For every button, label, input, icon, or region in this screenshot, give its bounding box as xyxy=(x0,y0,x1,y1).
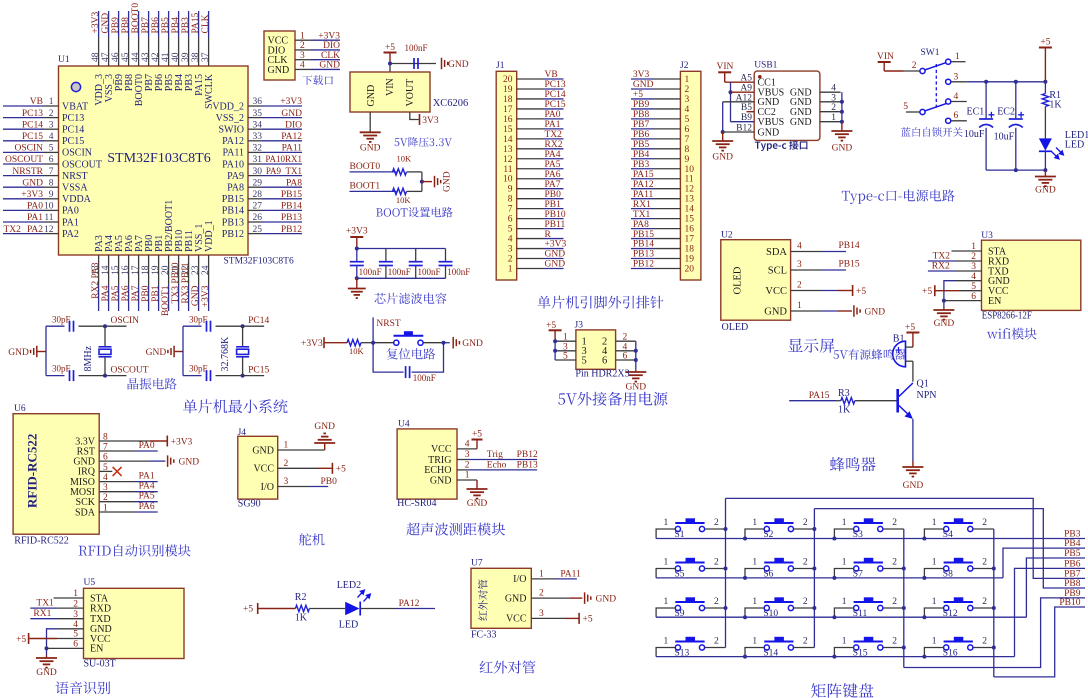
svg-text:BOOT0: BOOT0 xyxy=(350,162,381,172)
wire S5 pin1 elbow xyxy=(656,569,675,578)
svg-text:2: 2 xyxy=(300,41,305,51)
svg-text:1: 1 xyxy=(752,637,757,647)
svg-text:+5: +5 xyxy=(243,605,253,615)
wire U1 left pin 2 xyxy=(3,117,44,119)
svg-text:PA6: PA6 xyxy=(121,285,131,301)
svg-text:+5: +5 xyxy=(336,465,346,475)
svg-text:44: 44 xyxy=(131,52,141,62)
svg-text:2: 2 xyxy=(49,109,54,119)
svg-text:PB15: PB15 xyxy=(222,194,244,205)
svg-text:PB14: PB14 xyxy=(839,241,860,251)
wire row4 bus xyxy=(656,656,1014,658)
svg-text:OSCIN: OSCIN xyxy=(14,144,43,154)
wire J3 right vertical xyxy=(635,341,637,369)
svg-text:+3V3: +3V3 xyxy=(91,12,101,34)
svg-text:SDA: SDA xyxy=(766,247,787,258)
svg-text:RX3 PB11: RX3 PB11 xyxy=(181,262,191,303)
caption wifi模块 xyxy=(987,328,1037,340)
caption 单片机引脚外引排针 xyxy=(538,296,664,309)
svg-text:10K: 10K xyxy=(349,346,365,356)
wire U5 EN xyxy=(47,647,84,649)
svg-text:PA0: PA0 xyxy=(545,110,561,120)
svg-text:PB3: PB3 xyxy=(633,160,650,170)
wire J1 pin 20 xyxy=(517,78,543,80)
svg-text:GND: GND xyxy=(36,668,57,678)
wire U1 right pin 32 xyxy=(248,151,262,153)
svg-text:30pF: 30pF xyxy=(52,364,71,374)
junction dot col3 row2 xyxy=(902,567,906,571)
wire A12 gnd xyxy=(723,101,755,103)
wire J3 left pin 5 xyxy=(555,359,576,361)
junction dot col2 row1 xyxy=(812,527,816,531)
svg-text:PA1: PA1 xyxy=(27,213,43,223)
wire J4 VCC xyxy=(278,467,317,469)
svg-text:GND: GND xyxy=(633,80,654,90)
svg-text:PA6: PA6 xyxy=(139,502,155,512)
wire column2 top to PB8 xyxy=(814,509,1085,588)
svg-text:VCC: VCC xyxy=(506,614,527,625)
wire ladder left vertical 8MHz xyxy=(45,326,47,375)
svg-text:PC13: PC13 xyxy=(62,113,84,124)
svg-text:PB13: PB13 xyxy=(222,217,244,228)
svg-text:12: 12 xyxy=(503,155,513,165)
svg-text:2: 2 xyxy=(803,637,808,647)
wire U6 SDA xyxy=(99,511,135,513)
pushbutton S13 xyxy=(675,642,704,651)
wire J2 pin 3 xyxy=(631,98,654,100)
wire buzzer gnd stem xyxy=(912,461,914,466)
svg-text:TRIG: TRIG xyxy=(428,455,451,466)
svg-text:2: 2 xyxy=(714,637,719,647)
svg-text:PA4: PA4 xyxy=(545,150,561,160)
wire J2 pin 2 xyxy=(631,88,654,90)
junction dot bus row3 col4 xyxy=(922,615,926,619)
svg-text:47: 47 xyxy=(101,52,111,62)
wire J3 right pin 4 xyxy=(616,350,636,352)
junction dot usb right 1 xyxy=(840,120,844,124)
caption 复位电路 xyxy=(387,348,436,359)
wire S11 pin1 elbow xyxy=(834,608,853,617)
svg-text:PB3: PB3 xyxy=(181,17,191,34)
svg-text:18: 18 xyxy=(141,265,151,275)
junction dot top 32.768K xyxy=(241,324,245,328)
svg-text:+3V3: +3V3 xyxy=(171,437,193,447)
wire U5 pin1 xyxy=(54,597,84,599)
wire SW1 pin4 stub xyxy=(951,101,967,103)
svg-text:1: 1 xyxy=(842,518,847,528)
svg-text:PB6: PB6 xyxy=(1064,559,1081,569)
wire J2 pin 5 xyxy=(631,118,654,120)
svg-text:PB4: PB4 xyxy=(171,17,181,34)
junction dot bus row4 col4 xyxy=(922,655,926,659)
svg-text:39: 39 xyxy=(181,52,191,62)
svg-text:LED: LED xyxy=(1065,140,1084,151)
caption 蓝白自锁开关 xyxy=(901,127,963,137)
svg-text:U2: U2 xyxy=(721,231,733,241)
svg-text:8: 8 xyxy=(508,195,513,205)
pushbutton S8 xyxy=(944,563,973,572)
svg-text:PB1: PB1 xyxy=(545,200,562,210)
svg-text:PB15: PB15 xyxy=(633,230,654,240)
svg-text:VDDA: VDDA xyxy=(62,194,92,205)
wire U1 right pin 30 xyxy=(248,175,262,177)
svg-text:VSS_2: VSS_2 xyxy=(216,113,244,124)
wire S6 pin2 stub xyxy=(794,568,815,570)
wire USB1 right pin 1 xyxy=(820,121,841,123)
junction dot J3 pin6 xyxy=(634,358,638,362)
wire S7 pin1 elbow xyxy=(834,569,853,578)
svg-text:24: 24 xyxy=(201,265,211,275)
capacitor 30pF bottom 32.768K xyxy=(207,370,211,381)
svg-text:2: 2 xyxy=(714,558,719,568)
svg-text:3V3: 3V3 xyxy=(422,116,439,126)
svg-text:100nF: 100nF xyxy=(447,267,470,277)
capacitor C2 100nF xyxy=(385,249,387,262)
wire usb right gnd vertical xyxy=(841,92,843,122)
svg-text:VIN: VIN xyxy=(877,52,894,62)
svg-text:+3V3: +3V3 xyxy=(318,31,340,41)
wire row3 riser to PB5 xyxy=(1026,558,1085,617)
svg-text:10K: 10K xyxy=(397,154,413,164)
ground bar U7 xyxy=(585,592,591,604)
svg-text:PB13: PB13 xyxy=(633,250,654,260)
svg-text:OSCOUT: OSCOUT xyxy=(5,155,43,165)
svg-text:PA12: PA12 xyxy=(633,180,654,190)
svg-text:33: 33 xyxy=(253,132,263,142)
svg-text:2: 2 xyxy=(803,518,808,528)
svg-text:VOUT: VOUT xyxy=(405,79,416,107)
svg-text:10: 10 xyxy=(44,202,54,212)
svg-text:PB7: PB7 xyxy=(633,120,650,130)
svg-text:1: 1 xyxy=(49,97,54,107)
svg-text:2: 2 xyxy=(803,597,808,607)
svg-text:U3: U3 xyxy=(981,231,993,241)
wire U1 bottom pin 21 xyxy=(178,255,180,285)
svg-text:PB12: PB12 xyxy=(222,229,244,240)
svg-text:NRST: NRST xyxy=(376,319,400,329)
pushbutton S3 xyxy=(854,523,883,532)
svg-text:EC2: EC2 xyxy=(997,107,1015,118)
svg-text:48: 48 xyxy=(91,52,101,62)
U7 part label 红外对管 vertical xyxy=(478,579,488,620)
junction dot A9 xyxy=(729,90,733,94)
svg-text:OLED: OLED xyxy=(722,322,749,333)
wire U1 left pin 6 xyxy=(3,163,44,165)
svg-text:18: 18 xyxy=(503,95,513,105)
svg-text:VDD_2: VDD_2 xyxy=(212,101,244,112)
IC XC6206 body xyxy=(350,72,430,112)
svg-text:PA11: PA11 xyxy=(560,569,581,579)
wire J2 pin 8 xyxy=(631,148,654,150)
svg-text:16: 16 xyxy=(121,265,131,275)
svg-text:16: 16 xyxy=(503,115,513,125)
svg-text:STM32F103C8T6: STM32F103C8T6 xyxy=(107,151,210,166)
svg-text:PA11: PA11 xyxy=(223,148,245,159)
caption BOOT设置电路 xyxy=(376,207,453,217)
svg-text:9: 9 xyxy=(685,155,690,165)
svg-text:+3V3: +3V3 xyxy=(346,227,368,237)
wire SW1 pin6 stub xyxy=(951,120,967,122)
ground earth power xyxy=(1035,177,1056,187)
wire S5 pin2 stub xyxy=(705,568,726,570)
wire J2 pin 11 xyxy=(631,178,654,180)
svg-text:U5: U5 xyxy=(84,578,96,588)
wire U1 top pin 46 xyxy=(118,11,120,37)
junction dot usb right 2 xyxy=(840,110,844,114)
crystal 32.768K xyxy=(242,326,244,347)
wire J1 pin 16 xyxy=(517,118,543,120)
svg-text:+5: +5 xyxy=(16,635,26,645)
wire U1 left pin 3 xyxy=(3,128,44,130)
svg-text:PA4: PA4 xyxy=(101,285,111,301)
wire usb left gnd stem xyxy=(722,132,724,141)
wire U7 GND xyxy=(531,597,570,599)
svg-text:3: 3 xyxy=(685,95,690,105)
wire reset main xyxy=(324,342,347,344)
svg-text:SW1: SW1 xyxy=(921,48,940,58)
svg-text:PC14: PC14 xyxy=(248,316,269,326)
svg-text:J2: J2 xyxy=(680,61,689,71)
svg-text:PB0: PB0 xyxy=(321,477,338,487)
svg-text:GND: GND xyxy=(366,85,377,107)
svg-text:PB9: PB9 xyxy=(111,17,121,34)
wire BOOT0 xyxy=(350,171,397,173)
svg-text:GND: GND xyxy=(626,383,647,393)
svg-text:RX1: RX1 xyxy=(633,200,651,210)
no-connect X on IRQ xyxy=(113,467,122,476)
svg-text:PB8: PB8 xyxy=(1064,579,1081,589)
svg-text:PB14: PB14 xyxy=(222,206,244,217)
IC U2 body xyxy=(721,240,791,321)
svg-text:26: 26 xyxy=(253,213,263,223)
svg-text:2: 2 xyxy=(539,589,544,599)
junction dot reset right xyxy=(442,341,446,345)
svg-text:11: 11 xyxy=(503,165,512,175)
svg-text:2: 2 xyxy=(892,558,897,568)
svg-text:2: 2 xyxy=(465,460,470,470)
svg-text:43: 43 xyxy=(141,52,151,62)
svg-text:USB1: USB1 xyxy=(754,61,777,71)
wire U4 VCC elbow up xyxy=(457,448,477,450)
wire J3 left pin 1 xyxy=(555,340,576,342)
wire U3 gnd stem xyxy=(943,308,945,310)
svg-text:TX3 PB10: TX3 PB10 xyxy=(171,262,181,303)
resistor R1 1K xyxy=(1044,82,1046,94)
svg-text:2: 2 xyxy=(982,558,987,568)
svg-text:40: 40 xyxy=(171,52,181,62)
junction dot bus row2 col4 xyxy=(922,576,926,580)
svg-text:1: 1 xyxy=(932,637,937,647)
pushbutton S14 xyxy=(764,642,793,651)
svg-text:6: 6 xyxy=(685,125,690,135)
svg-text:27: 27 xyxy=(253,202,263,212)
svg-text:PB12: PB12 xyxy=(517,450,538,460)
svg-text:1: 1 xyxy=(539,569,544,579)
switch SW1 pole circles xyxy=(920,68,925,73)
svg-text:100nF: 100nF xyxy=(418,267,441,277)
wire BOOT1 xyxy=(350,190,397,192)
pushbutton S4 xyxy=(944,523,973,532)
wire S1 pin2 stub xyxy=(705,528,726,530)
wire J2 pin 20 xyxy=(631,267,654,269)
svg-text:PA8: PA8 xyxy=(227,183,244,194)
wire U3 pin3 TXD xyxy=(928,270,955,272)
svg-text:VIN: VIN xyxy=(717,62,734,72)
wire J2 pin 7 xyxy=(631,138,654,140)
wire U1 top pin 40 xyxy=(178,11,180,37)
wire U6 MISO xyxy=(99,481,135,483)
svg-text:6: 6 xyxy=(602,355,607,366)
svg-text:+3V3: +3V3 xyxy=(280,97,302,107)
junction dot col2 row2 xyxy=(812,567,816,571)
wire U1 right pin 36 xyxy=(248,105,262,107)
wire column1 top to PB7 xyxy=(726,498,1086,578)
power +3V3 U6 xyxy=(166,436,168,447)
wire S4 pin2 stub xyxy=(973,528,994,530)
svg-text:PA12: PA12 xyxy=(222,136,244,147)
wire J2 pin 16 xyxy=(631,228,654,230)
svg-text:9: 9 xyxy=(49,190,54,200)
caption 超声波测距模块 xyxy=(406,523,505,536)
wire LED2 left xyxy=(258,608,296,610)
svg-text:EN: EN xyxy=(988,296,1001,307)
svg-text:3: 3 xyxy=(831,93,836,103)
svg-text:GND: GND xyxy=(832,144,853,154)
svg-text:20: 20 xyxy=(161,265,171,275)
wire U2 SDA net xyxy=(821,251,846,253)
svg-text:29: 29 xyxy=(253,178,263,188)
wire U1 bottom pin 23 xyxy=(198,255,200,285)
caption 红外对管 xyxy=(480,661,536,674)
svg-text:GND: GND xyxy=(268,65,290,76)
svg-text:PA10RX1: PA10RX1 xyxy=(265,154,302,164)
wire J1 pin 19 xyxy=(517,88,543,90)
svg-text:5: 5 xyxy=(49,144,54,154)
switch SW1 dashed link xyxy=(935,64,937,108)
svg-text:PA0: PA0 xyxy=(62,206,79,217)
svg-text:+5: +5 xyxy=(1040,38,1050,48)
wire S16 pin2 stub xyxy=(973,647,994,649)
wire U1 bottom pin 16 xyxy=(128,255,130,285)
svg-text:15: 15 xyxy=(685,215,695,225)
svg-text:Echo: Echo xyxy=(487,460,507,470)
wire S12 pin1 elbow xyxy=(924,608,943,617)
svg-text:11: 11 xyxy=(685,175,694,185)
wire U5 gnd stem xyxy=(46,655,48,658)
svg-text:VCC: VCC xyxy=(765,286,787,297)
svg-text:14: 14 xyxy=(503,135,513,145)
svg-text:1: 1 xyxy=(932,518,937,528)
svg-text:10K: 10K xyxy=(396,195,412,205)
wire download-port pin 4 xyxy=(295,68,311,70)
wire U1 left pin 8 xyxy=(3,186,44,188)
wire S4 pin1 elbow xyxy=(924,529,943,539)
svg-text:GND: GND xyxy=(712,153,733,163)
wire U1 bottom pin 15 xyxy=(118,255,120,285)
resistor R3 1K xyxy=(836,400,841,402)
svg-text:PC14: PC14 xyxy=(62,125,84,136)
svg-text:2: 2 xyxy=(892,518,897,528)
USB1 pin-1 dot xyxy=(758,75,762,79)
wire U2 pin 1 xyxy=(791,310,821,312)
wire S9 pin1 elbow xyxy=(656,608,675,617)
svg-text:PB14: PB14 xyxy=(633,240,654,250)
svg-text:2: 2 xyxy=(797,281,802,291)
wire U1 top pin 41 xyxy=(168,11,170,37)
wire J2 pin 6 xyxy=(631,128,654,130)
ground earth J4 inverted xyxy=(314,433,335,443)
svg-text:3: 3 xyxy=(539,609,544,619)
wire column4 vertical xyxy=(993,529,995,677)
svg-text:PA1: PA1 xyxy=(62,217,79,228)
IC U3 body xyxy=(982,240,1081,310)
power bar 3V3 xyxy=(419,114,421,125)
caption 芯片滤波电容 xyxy=(375,293,447,304)
wire S13 pin2 stub xyxy=(705,647,726,649)
wire U1 right pin 29 xyxy=(248,186,262,188)
wire U1 bottom pin 13 xyxy=(98,255,100,285)
wire VIN node xyxy=(389,64,391,73)
svg-text:GND: GND xyxy=(462,339,483,349)
svg-text:20: 20 xyxy=(503,75,513,85)
svg-text:15: 15 xyxy=(503,125,513,135)
svg-text:42: 42 xyxy=(151,52,161,62)
svg-text:VB: VB xyxy=(545,70,558,80)
wire S1 pin1 elbow xyxy=(656,529,675,539)
svg-text:TX1: TX1 xyxy=(36,598,54,608)
svg-text:SG90: SG90 xyxy=(238,499,261,510)
wire S15 pin1 elbow xyxy=(834,648,853,657)
LED2 diode xyxy=(345,602,359,615)
capacitor C3 100nF xyxy=(415,249,417,262)
svg-text:CLK: CLK xyxy=(321,51,340,61)
svg-text:PC14: PC14 xyxy=(545,90,566,100)
wire bottom branch 8MHz xyxy=(46,375,65,377)
wire LED2 right xyxy=(360,608,396,610)
svg-text:Pin HDR2X3: Pin HDR2X3 xyxy=(575,369,629,380)
svg-text:2: 2 xyxy=(623,333,628,343)
svg-text:41: 41 xyxy=(161,52,171,62)
svg-text:46: 46 xyxy=(111,52,121,62)
svg-text:1: 1 xyxy=(664,518,669,528)
junction dot bottom EC2 xyxy=(1014,168,1018,172)
capacitor C1 100nF xyxy=(356,249,358,262)
svg-text:U4: U4 xyxy=(398,420,410,430)
wire U1 right pin 25 xyxy=(248,233,262,235)
junction dot col4 row2 xyxy=(992,567,996,571)
wire U1 bottom pin 17 xyxy=(138,255,140,285)
junction dot col1 row3 xyxy=(724,606,728,610)
caption Type-c口-电源电路 xyxy=(842,189,955,204)
junction dot col1 row2 xyxy=(724,567,728,571)
wire U3 VCC xyxy=(936,290,961,292)
svg-text:LED2: LED2 xyxy=(337,580,361,591)
svg-text:PA15: PA15 xyxy=(191,12,201,33)
junction dot B12 xyxy=(721,130,725,134)
wire bottom branch 32.768K xyxy=(183,375,202,377)
wire filter gnd stem xyxy=(356,278,358,288)
pushbutton S15 xyxy=(854,642,883,651)
wire J1 pin 2 xyxy=(517,258,543,260)
svg-text:17: 17 xyxy=(503,105,513,115)
capacitor EC2 10uF xyxy=(1015,82,1017,119)
svg-text:VSSA: VSSA xyxy=(62,183,88,194)
svg-text:PA1: PA1 xyxy=(139,472,155,482)
svg-text:2: 2 xyxy=(284,459,289,469)
wire U4 TRIG xyxy=(457,459,467,461)
svg-text:1K: 1K xyxy=(295,613,308,624)
svg-text:GND: GND xyxy=(903,481,924,491)
